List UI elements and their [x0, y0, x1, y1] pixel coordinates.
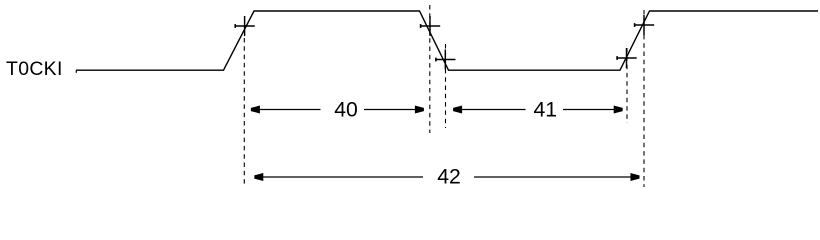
wire dashed reference line at rising edge 1: [243, 38, 245, 187]
node cross marker falling edge bottom: [436, 50, 456, 70]
wire T0CKI waveform: [76, 11, 818, 70]
wire dashed reference line at rising edge 2 start: [626, 48, 628, 123]
node cross marker rising edge 1: [235, 16, 255, 36]
node low-line start tick: [75, 70, 77, 73]
node dimension arrow 40: [251, 99, 423, 122]
svg-text:T0CKI: T0CKI: [6, 58, 63, 80]
node dimension arrow 42: [255, 166, 640, 189]
node cross marker falling edge top: [421, 16, 441, 36]
node cross marker rising edge 2 top: [635, 15, 655, 35]
node dimension arrow 41: [453, 99, 622, 122]
node cross marker rising edge 2 bottom: [617, 48, 637, 68]
svg-text:42: 42: [437, 166, 461, 189]
svg-text:41: 41: [534, 99, 558, 122]
wire dashed reference line at rising edge 2 top: [643, 10, 645, 187]
wire dashed reference line at falling edge start: [429, 5, 431, 133]
svg-text:40: 40: [334, 99, 358, 122]
wire dashed reference line at falling edge end: [445, 44, 447, 128]
